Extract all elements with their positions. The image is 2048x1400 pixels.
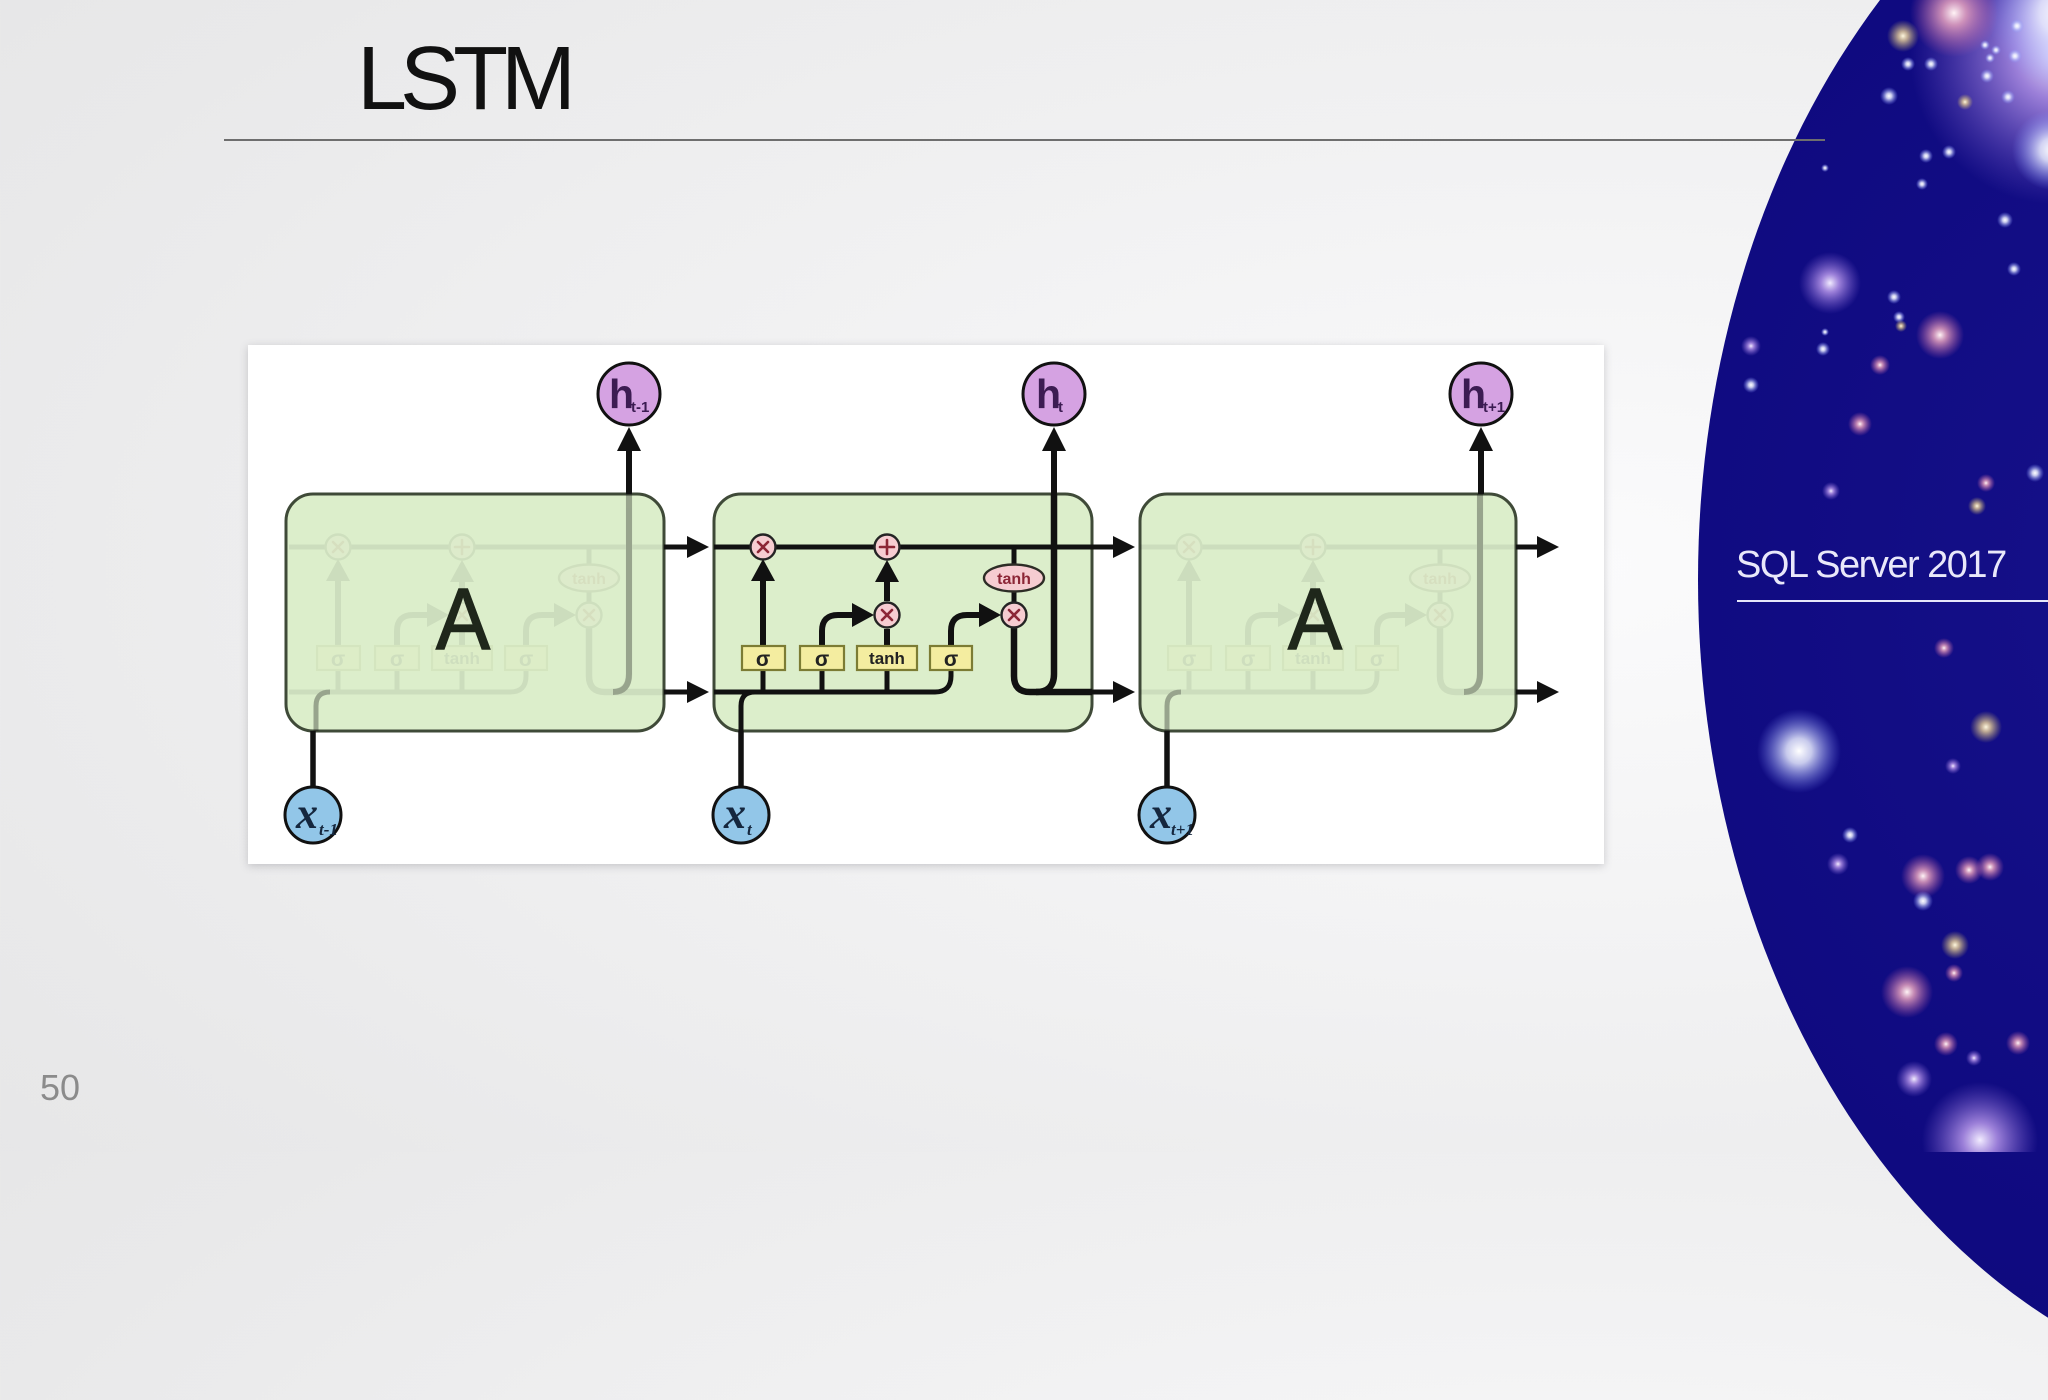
svg-text:x: x	[295, 789, 318, 838]
svg-text:t+1: t+1	[1483, 399, 1505, 416]
svg-text:t-1: t-1	[319, 820, 338, 839]
svg-text:x: x	[1149, 789, 1172, 838]
svg-text:t+1: t+1	[1171, 820, 1194, 839]
svg-text:t-1: t-1	[631, 399, 649, 416]
svg-text:A: A	[1288, 571, 1342, 668]
svg-text:t: t	[1058, 399, 1063, 416]
svg-text:A: A	[436, 571, 490, 668]
svg-text:x: x	[723, 789, 746, 838]
